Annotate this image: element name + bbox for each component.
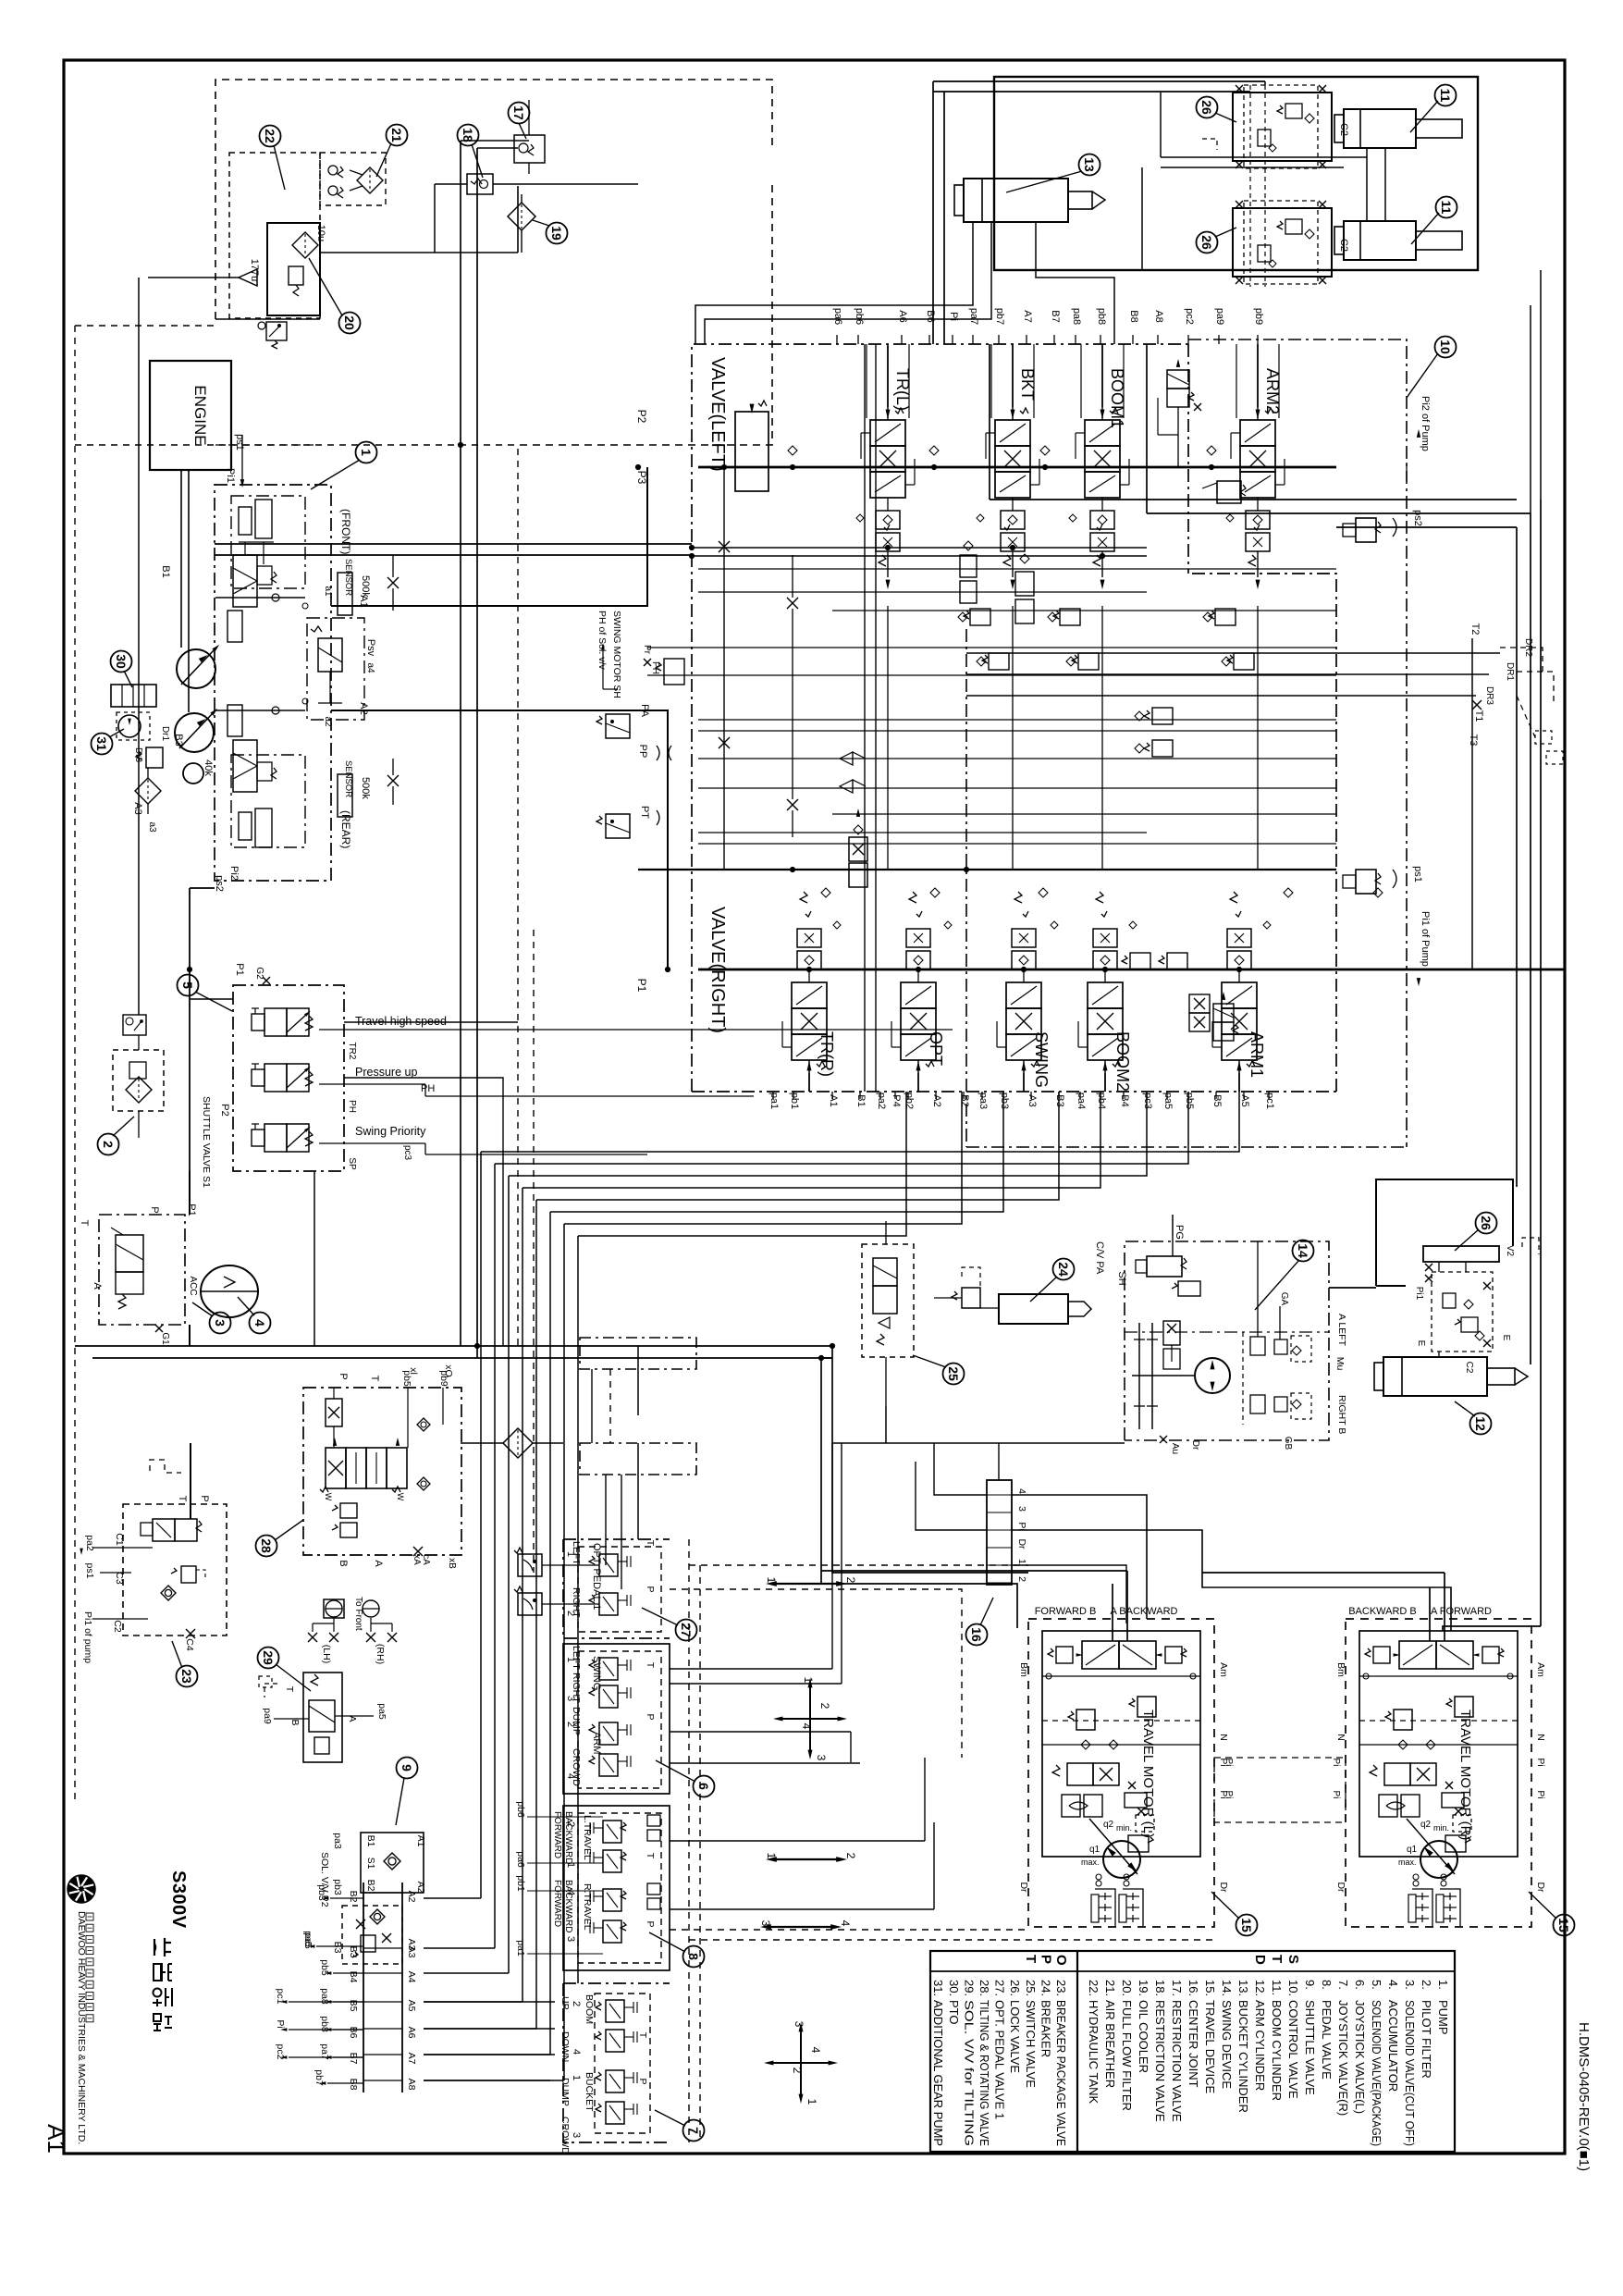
svg-text:T: T <box>645 1540 656 1547</box>
svg-text:21: 21 <box>389 128 404 142</box>
svg-text:500k: 500k <box>360 777 371 799</box>
item ref 24 <box>1053 1259 1075 1280</box>
breaker relief <box>962 1288 980 1308</box>
air breather item 21 box <box>320 153 386 205</box>
svg-text:T1: T1 <box>1473 710 1484 722</box>
Psv solenoid box <box>307 618 364 720</box>
lock valve item 26 lower <box>1233 208 1332 277</box>
direction cross arrows <box>782 1718 838 1720</box>
main spool item 28 <box>326 1448 346 1488</box>
svg-text:1: 1 <box>359 449 374 456</box>
svg-text:N: N <box>1535 1734 1546 1741</box>
svg-text:PEDAL VALVE: PEDAL VALVE <box>1320 2000 1334 2080</box>
svg-text:8.: 8. <box>1320 1980 1334 1990</box>
wire left verticals <box>460 141 461 1346</box>
svg-text:DUMP: DUMP <box>571 1707 582 1735</box>
wire right bundle down <box>1516 527 1518 1187</box>
svg-text:pb9: pb9 <box>1253 308 1264 325</box>
pump sensor 2 <box>338 774 352 817</box>
svg-text:Pi1 of pump: Pi1 of pump <box>82 1611 93 1663</box>
svg-text:A8: A8 <box>406 2079 417 2091</box>
svg-text:4: 4 <box>800 1723 813 1730</box>
svg-text:Pi: Pi <box>1535 1790 1546 1798</box>
svg-text:TILTING & ROTATING VALVE: TILTING & ROTATING VALVE <box>977 2000 991 2146</box>
column continuation verticals <box>887 606 889 870</box>
swing make-up checks <box>1250 1337 1265 1355</box>
right travel pedal valves <box>603 1889 621 1911</box>
svg-text:6.: 6. <box>1353 1980 1367 1990</box>
svg-text:RIGHT: RIGHT <box>571 1587 582 1618</box>
svg-text:Dr: Dr <box>1018 1882 1029 1893</box>
direction arrows 34 <box>769 1926 832 1928</box>
svg-text:3: 3 <box>815 1755 828 1761</box>
svg-text:27.: 27. <box>993 1980 1007 1996</box>
svg-text:Psv: Psv <box>365 639 376 657</box>
svg-text:13.: 13. <box>1236 1980 1250 1996</box>
svg-text:PH of Sol. v/v: PH of Sol. v/v <box>596 611 608 670</box>
wires item5 to P lines <box>190 998 233 1000</box>
svg-text:D: D <box>1252 1955 1268 1965</box>
svg-text:max.: max. <box>1398 1858 1417 1867</box>
svg-text:Pi: Pi <box>1535 1758 1546 1766</box>
wire item16 to swing <box>998 1443 1000 1480</box>
svg-text:pa8: pa8 <box>1071 308 1082 325</box>
cutoff solenoid valve <box>116 1235 143 1272</box>
svg-text:A LEFT: A LEFT <box>1336 1314 1347 1347</box>
svg-text:pb7: pb7 <box>994 308 1005 325</box>
svg-text:PG: PG <box>1174 1225 1185 1240</box>
svg-text:30: 30 <box>114 654 129 669</box>
cyl12 lines <box>1438 1352 1440 1357</box>
svg-text:15.: 15. <box>1203 1980 1217 1996</box>
rear main pump <box>175 713 214 752</box>
svg-text:A6: A6 <box>897 310 908 322</box>
x marks on riser <box>787 598 798 609</box>
svg-text:3: 3 <box>571 2132 582 2138</box>
travel motor (L) control spool <box>1082 1641 1119 1669</box>
travel motor (R) motor <box>1420 1841 1457 1878</box>
junction dots <box>790 464 794 469</box>
svg-text:27: 27 <box>679 1623 694 1637</box>
svg-text:SP: SP <box>347 1157 357 1170</box>
svg-text:O: O <box>1053 1955 1069 1966</box>
swing motor <box>1195 1358 1230 1393</box>
svg-text:pa9: pa9 <box>262 1708 273 1724</box>
svg-text:TRAVEL MOTOR (R): TRAVEL MOTOR (R) <box>1457 1710 1473 1840</box>
gear pump 40k <box>183 763 203 784</box>
svg-text:pa2: pa2 <box>876 1092 887 1109</box>
svg-text:3: 3 <box>1016 1506 1027 1512</box>
svg-text:SOLENOID VALVE(CUT OFF): SOLENOID VALVE(CUT OFF) <box>1403 2000 1417 2146</box>
svg-text:1: 1 <box>802 1677 815 1684</box>
svg-text:A3: A3 <box>1027 1094 1038 1106</box>
svg-text:pa6: pa6 <box>832 308 843 325</box>
svg-text:To Front: To Front <box>353 1597 363 1631</box>
svg-text:DR1: DR1 <box>1505 662 1515 681</box>
svg-text:L.TRAVEL: L.TRAVEL <box>582 1815 593 1860</box>
svg-text:V2: V2 <box>1505 1245 1515 1257</box>
svg-text:a4: a4 <box>365 662 375 673</box>
svg-text:pc3: pc3 <box>402 1145 412 1161</box>
svg-text:JOYSTICK VALVE(L): JOYSTICK VALVE(L) <box>1353 2000 1367 2114</box>
svg-text:10.: 10. <box>1286 1980 1300 1996</box>
item ref 9 <box>397 1758 418 1779</box>
svg-text:PTO: PTO <box>947 2000 961 2025</box>
svg-text:RESTRICTION VALVE: RESTRICTION VALVE <box>1170 2000 1184 2122</box>
svg-text:Swing Priority: Swing Priority <box>355 1125 426 1138</box>
port feed lines lower sections <box>808 1073 810 1092</box>
svg-text:TR(L): TR(L) <box>893 368 912 411</box>
item ref 6 <box>694 1776 715 1797</box>
item ref 21 <box>387 125 408 146</box>
svg-text:BUCKET CYLINDER: BUCKET CYLINDER <box>1236 2000 1250 2113</box>
item ref 16 <box>966 1624 988 1646</box>
item 23 check <box>161 1586 176 1600</box>
svg-text:pb3: pb3 <box>999 1092 1010 1109</box>
bucket cylinder item 13 <box>964 179 1068 222</box>
item ref 28 <box>256 1536 277 1557</box>
svg-text:28.: 28. <box>977 1980 991 1996</box>
svg-text:ps1: ps1 <box>234 434 245 451</box>
svg-text:pb6: pb6 <box>515 1801 526 1818</box>
svg-text:T: T <box>284 1686 295 1693</box>
svg-text:pa9: pa9 <box>1214 308 1225 325</box>
switch valve item 25 <box>862 1244 914 1357</box>
item ref 8 <box>683 1946 705 1968</box>
svg-text:CROWD: CROWD <box>571 1748 582 1786</box>
svg-text:xB: xB <box>447 1558 457 1569</box>
svg-text:Travel high speed: Travel high speed <box>355 1015 447 1028</box>
svg-text:pa1: pa1 <box>515 1940 526 1957</box>
svg-text:W: W <box>396 1493 405 1501</box>
svg-text:BACKWARD B: BACKWARD B <box>1348 1606 1417 1617</box>
travel motor (R) dashed box <box>1346 1619 1531 1927</box>
svg-text:Pi1: Pi1 <box>225 468 236 483</box>
travel motor (L) motor <box>1103 1841 1140 1878</box>
scattered check motifs upper <box>856 514 864 522</box>
air breather filter <box>357 167 383 193</box>
svg-text:5: 5 <box>180 981 195 989</box>
svg-text:T: T <box>637 2032 648 2039</box>
svg-text:DOWN: DOWN <box>559 2031 571 2062</box>
item ref 13 <box>1079 154 1100 176</box>
svg-text:B6: B6 <box>925 310 936 322</box>
filter element 10u <box>292 232 318 258</box>
svg-text:pb6: pb6 <box>854 308 865 325</box>
svg-text:7.: 7. <box>1336 1980 1350 1990</box>
svg-text:C2: C2 <box>1338 239 1349 252</box>
svg-text:SENSOR: SENSOR <box>343 760 353 797</box>
svg-text:2: 2 <box>844 1577 857 1584</box>
svg-text:A7: A7 <box>406 2053 417 2065</box>
item ref 29 <box>258 1648 279 1669</box>
wire valve drains right <box>966 652 1500 654</box>
swing feed lines <box>1172 1236 1174 1256</box>
svg-text:(FRONT): (FRONT) <box>339 509 352 554</box>
svg-text:T: T <box>645 1662 656 1669</box>
svg-text:pb3: pb3 <box>332 1879 343 1895</box>
svg-text:A2: A2 <box>406 1891 417 1903</box>
item ref 3 <box>210 1313 231 1334</box>
svg-text:26: 26 <box>1479 1216 1494 1230</box>
svg-text:1: 1 <box>805 2099 818 2105</box>
svg-text:SWING DEVICE: SWING DEVICE <box>1220 2000 1234 2089</box>
svg-text:B7: B7 <box>1050 310 1061 322</box>
svg-text:P: P <box>645 1920 656 1927</box>
item ref 18 <box>458 125 479 146</box>
svg-text:P3: P3 <box>635 471 648 485</box>
svg-text:Dr: Dr <box>1335 1882 1346 1893</box>
svg-text:C/V PA: C/V PA <box>1094 1241 1105 1275</box>
svg-text:DAEWOO HEAVY INDUSTRIES & MACH: DAEWOO HEAVY INDUSTRIES & MACHINERY LTD. <box>76 1911 87 2144</box>
boom bucket pedal group item 7 box <box>563 1983 670 2142</box>
title korean (hydraulic circuit) <box>154 1939 155 1956</box>
extra manifold horizontals <box>698 719 1336 721</box>
svg-text:21.: 21. <box>1103 1980 1117 1996</box>
svg-text:GB: GB <box>1283 1437 1293 1450</box>
svg-text:PILOT FILTER: PILOT FILTER <box>1420 2000 1433 2079</box>
wire right side returns <box>933 80 1265 82</box>
svg-text:17: 17 <box>511 105 526 120</box>
svg-text:2: 2 <box>571 2001 582 2006</box>
svg-text:3: 3 <box>793 2021 805 2028</box>
svg-text:P: P <box>338 1373 349 1379</box>
svg-text:B5: B5 <box>1211 1094 1223 1106</box>
svg-text:P: P <box>645 1713 656 1720</box>
svg-text:ps1: ps1 <box>1412 866 1423 883</box>
accumulator item 4 <box>201 1265 258 1317</box>
svg-text:PH: PH <box>347 1100 357 1113</box>
svg-text:A: A <box>92 1282 103 1290</box>
svg-text:pc2: pc2 <box>1184 308 1195 325</box>
pump sensor 1 <box>338 573 352 615</box>
svg-text:C2: C2 <box>1338 123 1349 136</box>
svg-text:TR2: TR2 <box>347 1043 357 1060</box>
scattered check motifs lower <box>833 921 841 929</box>
front pump regulator box <box>231 496 305 588</box>
svg-text:B2: B2 <box>959 1094 970 1106</box>
svg-text:C3: C3 <box>114 1572 125 1585</box>
svg-text:P: P <box>637 2078 648 2084</box>
svg-text:DUMP: DUMP <box>559 2078 571 2106</box>
swing gear train <box>1138 1323 1140 1429</box>
svg-text:Bm: Bm <box>1018 1662 1029 1677</box>
item ref 22 <box>260 126 281 147</box>
svg-text:BREAKER PACKAGE VALVE: BREAKER PACKAGE VALVE <box>1054 2000 1068 2146</box>
svg-text:40k: 40k <box>203 759 214 776</box>
sol valve tilting item 29 <box>303 1673 342 1762</box>
svg-text:P: P <box>149 1206 160 1213</box>
svg-text:LEFT: LEFT <box>571 1646 582 1670</box>
relief pair item 28 <box>340 1503 357 1518</box>
svg-text:pc1: pc1 <box>1264 1092 1275 1109</box>
x marks at pump pilot <box>387 577 399 588</box>
svg-text:B3: B3 <box>348 1946 359 1958</box>
svg-text:SH: SH <box>1116 1271 1127 1285</box>
svg-text:Mu: Mu <box>1334 1357 1346 1371</box>
svg-text:11.: 11. <box>1270 1980 1284 1995</box>
company name korean <box>86 1913 93 1920</box>
svg-text:ARM: ARM <box>591 1732 602 1754</box>
item ref 11 <box>1435 85 1457 106</box>
svg-text:4: 4 <box>809 2047 822 2054</box>
svg-text:2: 2 <box>844 1853 857 1859</box>
svg-text:9: 9 <box>400 1764 414 1771</box>
boom cylinder 11 upper <box>1344 109 1416 148</box>
svg-text:BOOM CYLINDER: BOOM CYLINDER <box>1270 2000 1284 2101</box>
item ref 15 <box>1554 1915 1575 1936</box>
svg-text:T: T <box>1023 1955 1039 1963</box>
port feed lines upper sections <box>887 344 889 407</box>
svg-text:14.: 14. <box>1220 1980 1234 1996</box>
svg-text:B6: B6 <box>348 2027 359 2039</box>
travel pedal group item 8 box <box>563 1806 670 1970</box>
svg-text:16: 16 <box>969 1627 984 1642</box>
svg-text:Pi1 of Pump: Pi1 of Pump <box>1420 911 1431 967</box>
svg-text:SHUTTLE VALVE: SHUTTLE VALVE <box>1303 2000 1317 2095</box>
svg-text:P1: P1 <box>186 1204 197 1216</box>
direction cross arrows <box>773 2062 829 2064</box>
svg-text:CONTROL VALVE: CONTROL VALVE <box>1286 2000 1300 2099</box>
svg-text:1.: 1. <box>1436 1980 1450 1990</box>
pi connection box between motors <box>1214 1758 1346 1822</box>
svg-text:29: 29 <box>261 1650 276 1665</box>
pump output lines <box>215 597 305 599</box>
item25 lines <box>885 1221 887 1244</box>
travel motor supply drops <box>1112 1584 1113 1641</box>
opt pedal valve group item 27 box <box>563 1539 670 1638</box>
svg-text:B3: B3 <box>1054 1094 1065 1106</box>
travel motor (R) counterbalance valve <box>1384 1763 1410 1785</box>
svg-text:3: 3 <box>565 1936 576 1942</box>
svg-text:Dr: Dr <box>1190 1440 1200 1450</box>
svg-text:4: 4 <box>839 1920 852 1927</box>
sol valve package B3 box <box>342 1906 402 1964</box>
lock valve internals dashed <box>1432 1272 1493 1352</box>
bucket pilot valves <box>606 2070 624 2092</box>
svg-text:ps2: ps2 <box>1412 510 1423 526</box>
wire filter to pilot groups <box>503 1428 533 1458</box>
svg-text:LOCK VALVE: LOCK VALVE <box>1008 2000 1022 2073</box>
front main pump <box>177 649 215 688</box>
svg-text:ACCUMULATOR: ACCUMULATOR <box>1386 2000 1400 2092</box>
svg-text:B1: B1 <box>855 1094 867 1106</box>
svg-text:pa5: pa5 <box>376 1703 387 1720</box>
svg-text:12: 12 <box>1473 1416 1488 1431</box>
pc2 solenoid valve <box>1167 370 1189 389</box>
svg-text:9.: 9. <box>1303 1980 1317 1990</box>
svg-text:4: 4 <box>571 2049 582 2055</box>
wire to travel motors <box>832 1346 1028 1573</box>
check valves item 28 <box>417 1418 430 1431</box>
svg-text:BREAKER: BREAKER <box>1039 2000 1052 2057</box>
item ref 30 <box>111 651 132 673</box>
svg-text:C4: C4 <box>184 1638 195 1651</box>
svg-text:pa5: pa5 <box>1162 1092 1174 1109</box>
svg-text:A: A <box>373 1560 384 1567</box>
item ref 5 <box>178 975 199 996</box>
svg-text:P2: P2 <box>219 1104 230 1116</box>
PTO item 30 <box>111 685 156 707</box>
svg-text:A FORWARD: A FORWARD <box>1431 1606 1492 1617</box>
svg-text:SWING: SWING <box>591 1656 602 1690</box>
svg-text:18.: 18. <box>1153 1980 1167 1996</box>
svg-text:T: T <box>79 1220 90 1227</box>
svg-text:pa2: pa2 <box>84 1535 95 1551</box>
front regulator spool <box>233 555 257 607</box>
svg-text:ARM CYLINDER: ARM CYLINDER <box>1253 2000 1267 2091</box>
svg-text:N: N <box>1218 1734 1229 1741</box>
svg-text:1: 1 <box>765 1853 778 1859</box>
svg-text:pb4: pb4 <box>1096 1092 1107 1109</box>
item ref 2 <box>98 1134 119 1155</box>
bottom center risers <box>591 1369 593 1443</box>
svg-text:RIGHT: RIGHT <box>571 1673 582 1703</box>
gauge motif above item2 <box>123 1015 146 1035</box>
svg-text:T: T <box>645 1853 656 1859</box>
svg-text:A6: A6 <box>406 2027 417 2039</box>
suction strainer 177u <box>239 269 257 286</box>
direction arrows 12 <box>775 1583 838 1585</box>
svg-text:Pi: Pi <box>1223 1791 1234 1799</box>
svg-text:11: 11 <box>1438 89 1453 103</box>
svg-text:HYDRAULIC TANK: HYDRAULIC TANK <box>1087 2000 1100 2105</box>
svg-text:GA: GA <box>1279 1292 1289 1306</box>
item ref 19 <box>547 223 568 244</box>
svg-text:22.: 22. <box>1087 1980 1100 1996</box>
svg-text:A3: A3 <box>406 1946 417 1958</box>
svg-text:23.: 23. <box>1054 1980 1068 1996</box>
svg-text:SWING MOTOR SH: SWING MOTOR SH <box>611 611 622 698</box>
svg-text:12.: 12. <box>1253 1980 1267 1996</box>
svg-text:DR3: DR3 <box>1484 686 1494 705</box>
svg-text:Dr: Dr <box>1535 1882 1546 1893</box>
svg-text:5.: 5. <box>1370 1980 1383 1990</box>
svg-text:B3: B3 <box>173 734 184 746</box>
svg-text:FORWARD B: FORWARD B <box>1035 1606 1097 1617</box>
port ladder rails <box>363 1882 364 2092</box>
svg-text:A1: A1 <box>415 1835 426 1847</box>
svg-text:BKT: BKT <box>1018 368 1037 401</box>
item 23 relief <box>181 1566 196 1583</box>
svg-text:(RH): (RH) <box>375 1644 386 1664</box>
svg-text:28: 28 <box>259 1538 274 1553</box>
svg-text:2: 2 <box>791 2068 804 2074</box>
item 23 solenoid valve <box>153 1519 175 1541</box>
bypass relief valve <box>289 266 303 285</box>
svg-text:PP: PP <box>637 745 648 759</box>
svg-text:2.: 2. <box>1420 1980 1433 1990</box>
direction arrows 12 <box>775 1858 838 1860</box>
svg-text:ps1: ps1 <box>84 1563 95 1579</box>
svg-text:A3: A3 <box>132 802 143 814</box>
svg-text:1: 1 <box>571 2075 582 2080</box>
svg-text:A5: A5 <box>1239 1094 1250 1106</box>
svg-text:S1: S1 <box>365 1858 376 1870</box>
svg-text:6: 6 <box>696 1783 711 1790</box>
svg-text:VALVE(LEFT): VALVE(LEFT) <box>707 357 728 472</box>
svg-text:max.: max. <box>1081 1858 1100 1867</box>
svg-text:Dr: Dr <box>1016 1538 1027 1549</box>
svg-text:3: 3 <box>759 1920 772 1927</box>
item10 dash-dot right closure <box>965 629 967 1147</box>
svg-text:ARM2: ARM2 <box>1263 368 1282 414</box>
wire engine down to item2 <box>138 278 140 1015</box>
travel motor (R) displacement control <box>1379 1795 1397 1817</box>
svg-text:T: T <box>1269 1955 1285 1963</box>
opt pedal valves <box>599 1554 618 1576</box>
svg-text:pb8: pb8 <box>1096 308 1107 325</box>
